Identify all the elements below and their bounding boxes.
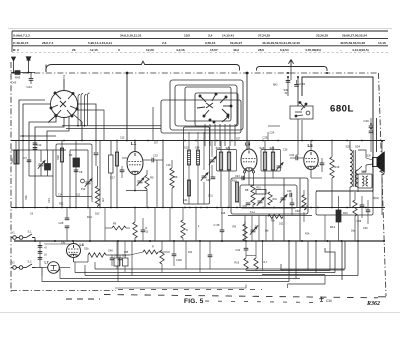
capacitor C16: [120, 170, 125, 172]
wire v40: [39, 241, 41, 268]
detector box inner: [240, 185, 297, 208]
svg-text:C14: C14: [58, 195, 63, 197]
wire v170: [169, 208, 171, 242]
svg-text:MG: MG: [273, 83, 278, 87]
svg-text:R,7: R,7: [264, 261, 269, 264]
junction bus2: [252, 207, 254, 209]
junction bus2: [75, 207, 77, 209]
choke S2b: [88, 253, 106, 257]
capacitor C28: [290, 193, 292, 198]
wire: [361, 196, 363, 205]
junction: [370, 123, 372, 125]
junction bus3: [357, 240, 359, 242]
svg-text:C19: C19: [221, 213, 226, 215]
junction bus3: [34, 240, 36, 242]
capacitor C40: [366, 210, 371, 212]
wire: [66, 228, 68, 241]
wire: [143, 159, 152, 161]
junction bus2: [283, 207, 285, 209]
junction bus1: [134, 140, 136, 142]
svg-text:C:49,16,15: C:49,16,15: [13, 41, 29, 45]
junction bus2: [184, 207, 186, 209]
svg-text:L6: L6: [80, 243, 84, 247]
svg-text:52,26,27: 52,26,27: [230, 41, 242, 45]
wire spk d: [362, 165, 366, 172]
antenna A2: [26, 57, 31, 73]
wire sw-left: [23, 104, 51, 136]
capacitor C44: [29, 79, 34, 81]
wire h270: [246, 270, 330, 272]
junction cable: [84, 125, 86, 127]
resistor R18: [353, 200, 357, 216]
resistor R1: [45, 164, 51, 171]
wire det drop 4: [265, 216, 267, 242]
wire: [97, 166, 99, 186]
wire v201: [203, 132, 205, 170]
resistor R9b: [268, 215, 283, 219]
frame right: [379, 73, 387, 296]
svg-text:S23: S23: [260, 146, 265, 150]
coil S24: [271, 152, 274, 170]
junction bus3: [327, 240, 329, 242]
shield box 2: [170, 80, 243, 130]
svg-text:C30: C30: [326, 299, 332, 303]
cable left drop 4: [94, 262, 96, 269]
capacitor C35: [220, 230, 225, 232]
junction bus2: [346, 207, 348, 209]
svg-text:C15: C15: [120, 137, 125, 140]
junction bus1: [361, 140, 363, 142]
svg-text:12,15: 12,15: [90, 48, 98, 52]
wire v200: [199, 241, 201, 273]
svg-text:R16: R16: [335, 165, 340, 169]
cable left drop 2: [74, 262, 76, 273]
wire: [211, 165, 213, 177]
wire: [245, 269, 247, 271]
capacitor C44b: [244, 248, 249, 250]
resistor R6: [170, 168, 174, 188]
svg-text:R5: R5: [150, 176, 154, 180]
wire L6 top: [73, 241, 75, 244]
wire: [15, 164, 17, 208]
wire: [188, 165, 190, 204]
capacitor C52: [38, 252, 43, 254]
capacitor C15: [152, 158, 154, 163]
wire v90: [89, 208, 91, 242]
svg-text:C34: C34: [290, 154, 295, 157]
cable right rise 2: [325, 248, 335, 273]
junction bus3: [262, 240, 264, 242]
svg-text:S14: S14: [195, 147, 200, 150]
wire sw2 drop 2: [209, 124, 211, 146]
svg-text:C43: C43: [11, 81, 17, 85]
junction bus1: [147, 140, 149, 142]
svg-text:C18: C18: [166, 164, 171, 167]
junction bus2: [331, 207, 333, 209]
wire v330: [329, 241, 331, 271]
wire pin b: [253, 173, 255, 186]
svg-text:C25: C25: [263, 136, 268, 140]
coil S25 primary: [350, 150, 352, 187]
wire: [357, 187, 359, 192]
wire h176: [29, 175, 53, 177]
svg-text:S2b: S2b: [84, 247, 89, 251]
svg-text:C23: C23: [235, 175, 240, 178]
svg-text:R15: R15: [235, 262, 240, 265]
svg-text:D11: D11: [279, 223, 284, 226]
wire v186: [185, 241, 187, 269]
resistor R15: [244, 258, 248, 269]
svg-text:L7: L7: [45, 261, 49, 265]
junction bus2: [227, 207, 229, 209]
resistor R8: [251, 185, 255, 205]
wire: [61, 162, 63, 208]
wire: [331, 178, 333, 208]
junction bus3: [54, 240, 56, 242]
page rule bottom: [0, 312, 400, 314]
svg-text:43,18,29,52,54,31,35,12,46: 43,18,29,52,54,31,35,12,46: [262, 41, 300, 45]
wire: [203, 182, 205, 204]
bus ground line: [14, 240, 385, 242]
wire: [290, 157, 296, 159]
trimmer C26t: [276, 163, 283, 171]
svg-text:4,14,0(16,5): 4,14,0(16,5): [352, 48, 369, 52]
wire: [47, 150, 49, 164]
svg-text:S13: S13: [184, 147, 189, 150]
wire: [182, 238, 184, 241]
frame bottom dashes: [104, 295, 378, 298]
svg-text:40,55,59,53,54,48: 40,55,59,53,54,48: [340, 41, 365, 45]
wire v19: [18, 150, 20, 164]
junction bus2: [87, 207, 89, 209]
capacitor C14: [94, 153, 99, 155]
svg-text:V2: V2: [12, 261, 16, 265]
capacitor C33: [208, 255, 213, 257]
junction bus3: [117, 240, 119, 242]
IF transformer T1 box: [217, 150, 237, 172]
wire: [95, 141, 97, 153]
trimmer C31: [280, 195, 287, 203]
wire: [272, 146, 274, 152]
wire sw-right3: [76, 110, 104, 140]
wire sw-left2: [19, 100, 45, 150]
wire: [95, 155, 97, 166]
small circle pin: [81, 179, 85, 183]
capacitor C49a: [369, 126, 374, 128]
svg-text:C49: C49: [364, 119, 370, 123]
junction bus1: [346, 140, 348, 142]
svg-text:9,56,16: 9,56,16: [205, 41, 216, 45]
svg-text:27,24,25: 27,24,25: [258, 33, 270, 37]
junction bus1: [116, 140, 118, 142]
wire: [381, 141, 383, 160]
cable left drop 3: [84, 265, 86, 276]
capacitor C48a: [110, 258, 115, 260]
resistor R2: [73, 158, 80, 167]
capacitor C7: [27, 160, 32, 162]
wire h255: [246, 255, 256, 257]
wire v288: [287, 77, 289, 96]
coil S1a: [14, 150, 16, 164]
junction bus2: [299, 207, 301, 209]
wire spk a: [366, 158, 373, 160]
wire switch stem: [63, 79, 65, 91]
wire: [245, 241, 247, 248]
wire: [110, 141, 112, 156]
junction bus2: [61, 207, 63, 209]
coil S24 secondary: [356, 170, 358, 187]
capacitor C23: [242, 176, 244, 181]
wire: [367, 212, 369, 224]
capacitor C36: [320, 163, 325, 165]
wire: [221, 208, 223, 231]
wire h136: [20, 135, 56, 137]
svg-text:R12: R12: [273, 198, 278, 201]
svg-text:C40: C40: [363, 227, 368, 230]
junction bus2: [273, 207, 275, 209]
svg-text:4,2,16: 4,2,16: [176, 48, 185, 52]
wire v118: [117, 241, 119, 282]
svg-text:R: 2: R: 2: [13, 48, 19, 52]
svg-text:C48: C48: [108, 250, 113, 253]
wire: [361, 207, 363, 218]
junction bus3: [341, 240, 343, 242]
resistor R11: [256, 190, 266, 195]
wire to C34: [296, 155, 298, 158]
transformer S46 small: [358, 174, 372, 188]
tube L3 pin b: [252, 171, 254, 173]
svg-text:C17: C17: [110, 176, 115, 180]
svg-text:~: ~: [340, 48, 342, 52]
trimmer C27b: [250, 227, 257, 235]
dial cord right: [257, 67, 328, 72]
capacitor C32c: [290, 203, 295, 205]
svg-text:4,76,30(31): 4,76,30(31): [305, 48, 321, 52]
coil S15: [188, 180, 191, 196]
tube L7: [48, 262, 60, 274]
wire: [349, 141, 351, 151]
node frame-B: [246, 72, 249, 75]
shield box 5: [195, 93, 238, 126]
wire: [228, 146, 230, 152]
stair 4: [115, 284, 288, 288]
svg-text:FIG. 5: FIG. 5: [184, 298, 204, 305]
junction bus2: [317, 207, 319, 209]
capacitor C26b: [65, 226, 70, 228]
wire v308: [307, 241, 309, 270]
switch V2: [26, 264, 35, 268]
svg-text:S:99,6,7,1,2: S:99,6,7,1,2: [13, 33, 30, 37]
wire v296: [295, 241, 297, 279]
band switch SK1 contacts: [50, 92, 78, 117]
wire v70: [69, 150, 71, 208]
wire: [134, 238, 136, 241]
capacitor C51: [38, 246, 43, 248]
svg-text:C91: C91: [243, 205, 248, 208]
capacitor C53: [38, 258, 43, 260]
junction bus1: [162, 140, 164, 142]
svg-text:S19: S19: [216, 146, 221, 150]
wire: [126, 227, 130, 229]
dial cord left: [46, 61, 240, 72]
wire input: [11, 72, 35, 74]
transformer 5b: [114, 258, 120, 266]
wire: [121, 166, 123, 170]
switch SK2 arrow: [222, 116, 229, 122]
svg-text:C100: C100: [176, 259, 182, 262]
resistor R21: [143, 250, 158, 254]
output tube L5: [304, 151, 318, 170]
coil S23: [263, 152, 266, 170]
junction bus1: [184, 140, 186, 142]
wire: [111, 255, 113, 258]
svg-text:S24: S24: [270, 146, 275, 150]
capacitor C91: [246, 203, 251, 205]
wire sw2 drop 4: [219, 124, 221, 146]
shield box 1: [161, 100, 241, 133]
wire: [142, 232, 144, 241]
pentode L3: [241, 149, 257, 171]
junction bus3: [89, 240, 91, 242]
junction bus2: [195, 207, 197, 209]
bottom dash group: [66, 298, 100, 300]
stair 3: [288, 275, 326, 284]
node frame-A: [126, 72, 129, 75]
resistor R22: [160, 250, 164, 264]
svg-text:C21: C21: [183, 199, 188, 202]
wire: [354, 192, 356, 200]
wire v300: [299, 178, 301, 241]
svg-text:D12: D12: [95, 213, 100, 216]
wire v157: [156, 160, 158, 208]
svg-text:R: R: [186, 229, 188, 232]
junction bus3: [221, 240, 223, 242]
junction bus1: [277, 140, 279, 142]
wire: [321, 165, 323, 172]
svg-text:R2: R2: [69, 153, 73, 157]
junction bus2: [171, 207, 173, 209]
svg-text:C27: C27: [255, 225, 260, 228]
wire cable h1: [62, 125, 161, 127]
svg-text:R19: R19: [343, 212, 348, 215]
resistor R5z: [243, 224, 247, 241]
wire: [197, 165, 199, 204]
wire: [255, 269, 257, 271]
wire: [291, 198, 293, 203]
wire: [381, 175, 383, 215]
wire v298b: [297, 119, 299, 155]
wire L1 anode: [134, 141, 136, 152]
table rule 1: [12, 30, 388, 32]
wire v132: [131, 241, 133, 276]
transformer 6b: [123, 258, 129, 266]
wire: [331, 141, 333, 158]
junction bus2: [69, 207, 71, 209]
resistor Rk: [181, 220, 185, 238]
capacitor C39: [360, 205, 365, 207]
junction bus1: [63, 140, 65, 142]
cable run 4: [60, 278, 300, 280]
svg-text:S1a: S1a: [10, 158, 14, 163]
wire: [119, 260, 121, 266]
wire sw2 drop 6: [229, 124, 231, 146]
wire v358: [357, 215, 359, 270]
triode L1: [127, 152, 143, 175]
wire v29: [28, 150, 30, 176]
svg-text:S46: S46: [361, 170, 366, 174]
wire: [116, 166, 118, 208]
svg-text:C7: C7: [24, 156, 28, 160]
junction bus2: [236, 207, 238, 209]
junction bus3: [199, 240, 201, 242]
junction bus2: [116, 207, 118, 209]
junction bus3: [315, 240, 317, 242]
wire: [111, 260, 113, 266]
wire spk c: [358, 150, 366, 158]
svg-text:R11: R11: [257, 187, 262, 190]
junction bus3: [173, 240, 175, 242]
svg-text:S,1: S,1: [28, 230, 32, 234]
junction bus3: [72, 240, 74, 242]
trimmer C9: [85, 179, 92, 187]
wire: [171, 188, 173, 208]
svg-text:C26: C26: [59, 221, 64, 225]
page rule top: [8, 28, 392, 30]
wire: [370, 118, 372, 126]
wire h244: [44, 243, 70, 245]
cable right rise 1: [344, 241, 346, 269]
frame bottom right corner: [378, 296, 386, 298]
svg-text:C12: C12: [37, 143, 42, 147]
svg-text:C8: C8: [79, 170, 83, 174]
junction: [287, 76, 289, 78]
junction bus3: [288, 240, 290, 242]
wire: [264, 141, 266, 153]
svg-text:S,2: S,2: [28, 260, 32, 264]
svg-text:2: 2: [63, 75, 65, 79]
wire: [303, 190, 305, 196]
wire sw-down2: [47, 117, 69, 151]
svg-text:C26: C26: [283, 149, 288, 152]
table rule 2: [12, 38, 388, 40]
wire L1 grid: [122, 157, 127, 159]
svg-text:2,3: 2,3: [162, 41, 167, 45]
bus HT line: [11, 140, 385, 142]
svg-text:L5: L5: [308, 143, 314, 148]
band switch SK1 rotor: [51, 91, 78, 118]
wire v153: [152, 107, 154, 141]
svg-text:3: 3: [118, 48, 120, 52]
svg-text:14,16: 14,16: [378, 41, 386, 45]
junction bus2: [262, 207, 264, 209]
resistor R3: [109, 155, 114, 173]
wire: [244, 221, 246, 224]
wire: [124, 266, 126, 273]
wire h190: [126, 190, 147, 192]
junction bus1: [22, 140, 24, 142]
junction bus2: [99, 207, 101, 209]
svg-text:12/2: 12/2: [184, 33, 190, 37]
resistor R3b: [95, 186, 99, 206]
wire det drop 1: [244, 216, 246, 242]
junction bus1: [246, 140, 248, 142]
wire: [30, 80, 32, 84]
trimmer C19: [209, 157, 216, 165]
wire: [116, 141, 118, 153]
wire: [228, 170, 230, 208]
wire: [87, 255, 89, 262]
bottom dash row A: [118, 289, 262, 291]
